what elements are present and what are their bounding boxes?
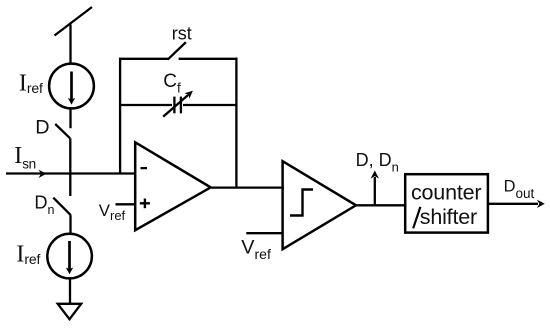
svg-text:rst: rst (172, 23, 192, 43)
svg-text:counter: counter (411, 181, 481, 205)
svg-text:D: D (35, 117, 49, 139)
svg-text:shifter: shifter (420, 205, 477, 229)
